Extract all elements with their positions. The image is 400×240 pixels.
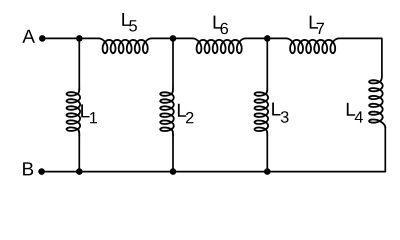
terminal label B bbox=[23, 162, 33, 175]
node junction bottom 2 bbox=[170, 168, 177, 175]
wire L7 to top right corner and down bbox=[339, 38, 382, 75]
label L6 letter bbox=[214, 16, 222, 29]
label L3 letter bbox=[272, 103, 280, 116]
label L1 subscript 1 bbox=[90, 112, 97, 123]
label L2 subscript 2 bbox=[186, 112, 193, 123]
wire bottom rail bbox=[42, 171, 386, 173]
inductor L4 bbox=[369, 76, 385, 128]
label L5 subscript 5 bbox=[129, 20, 137, 31]
inductor L5 bbox=[99, 38, 151, 53]
node junction top 3 bbox=[264, 35, 271, 42]
wire node3 column top bbox=[266, 38, 268, 87]
terminal A dot bbox=[39, 35, 46, 42]
node junction bottom 3 bbox=[264, 168, 271, 175]
wire L2 to bottom rail bbox=[172, 136, 174, 172]
inductor L3 bbox=[255, 88, 269, 136]
label L5 letter bbox=[122, 13, 130, 26]
node junction bottom 1 bbox=[76, 168, 83, 175]
wire L5 to L6 bbox=[151, 37, 193, 39]
label L2 letter bbox=[178, 104, 186, 117]
wire L1 to bottom rail bbox=[78, 136, 80, 172]
label L3 subscript 3 bbox=[281, 111, 289, 123]
label L4 subscript 4 bbox=[355, 111, 363, 122]
label L6 subscript 6 bbox=[221, 23, 229, 35]
terminal B dot bbox=[38, 168, 45, 175]
wire node2 column top bbox=[172, 38, 174, 87]
wire node1 column top bbox=[78, 38, 80, 88]
wire L3 to bottom rail bbox=[266, 136, 268, 172]
inductor L2 bbox=[160, 88, 174, 136]
label L7 letter bbox=[310, 16, 318, 29]
node junction top 2 bbox=[170, 35, 177, 42]
label L1 letter bbox=[81, 104, 89, 117]
label L7 subscript 7 bbox=[317, 23, 324, 34]
inductor L1 bbox=[67, 88, 81, 136]
inductor L7 bbox=[287, 38, 339, 53]
wire top rail A to L5 bbox=[42, 37, 99, 39]
wire right edge below L4 to bottom right corner bbox=[384, 128, 386, 172]
wire L6 to L7 bbox=[245, 37, 286, 39]
terminal label A bbox=[22, 30, 35, 43]
node junction top 1 bbox=[76, 35, 83, 42]
label L4 letter bbox=[347, 103, 355, 116]
inductor L6 bbox=[193, 38, 245, 53]
